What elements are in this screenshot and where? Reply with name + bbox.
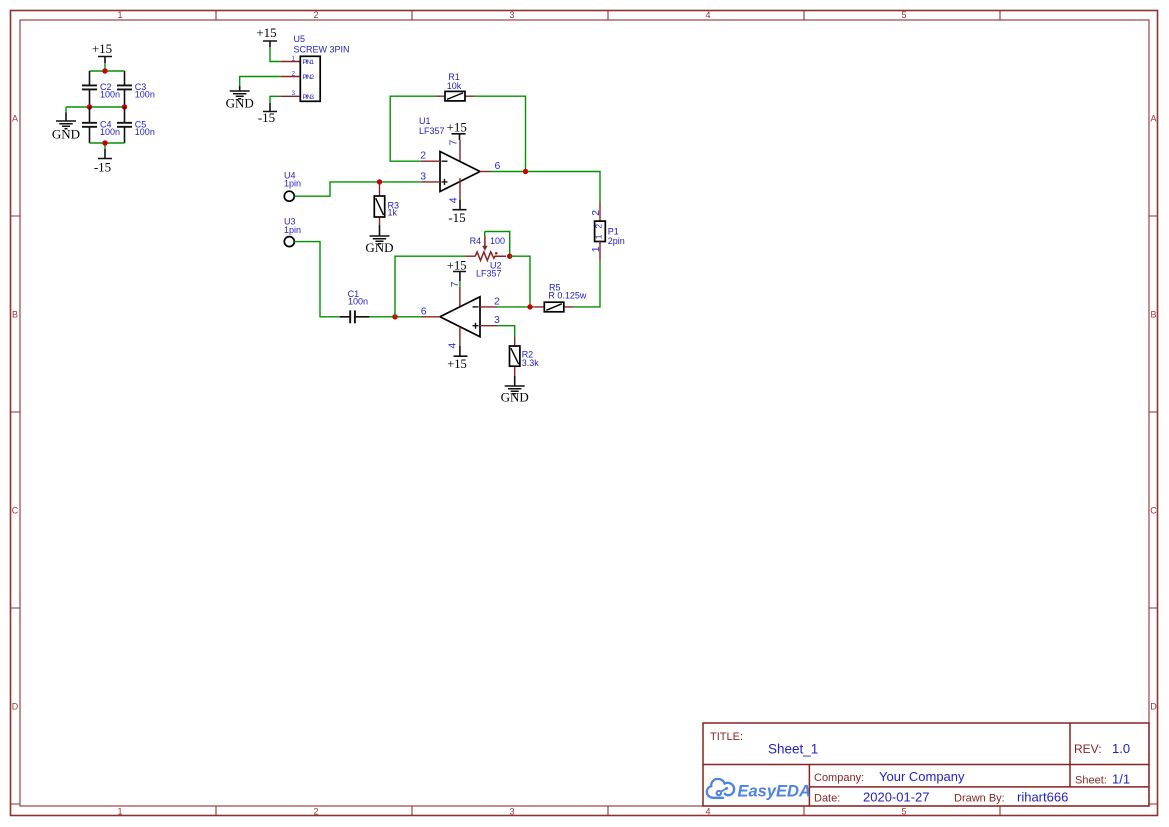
potentiometer R4: [465, 232, 506, 261]
svg-text:B: B: [12, 310, 18, 320]
svg-text:-15: -15: [258, 110, 275, 125]
svg-text:1/1: 1/1: [1112, 772, 1130, 787]
connector P1 body: [594, 221, 606, 241]
wire U5 pin3 to -15: [270, 96, 280, 103]
U1 pin 2: [420, 150, 440, 162]
capacitor C5: [117, 107, 155, 143]
svg-text:6: 6: [421, 305, 427, 317]
resistor R5: [534, 282, 587, 312]
power +15 (U2 pin7): [447, 258, 467, 281]
wire U4 to U1 pin3: [294, 182, 420, 196]
svg-text:4: 4: [705, 806, 710, 816]
power +15 (U2 pin4): [447, 346, 467, 371]
wire R5 to P1 pin1: [574, 261, 601, 307]
wire U5 pin2 to GND: [240, 77, 281, 87]
ruler bottom numbers: [117, 806, 906, 816]
svg-text:EasyEDA: EasyEDA: [738, 782, 811, 800]
wire feedback up to R4: [395, 256, 465, 317]
svg-text:100n: 100n: [135, 90, 155, 100]
U2 pin 7: [449, 281, 461, 306]
svg-text:PIN1: PIN1: [303, 59, 315, 66]
svg-text:1: 1: [594, 234, 604, 239]
svg-text:D: D: [12, 702, 19, 712]
svg-text:Sheet:: Sheet:: [1075, 775, 1107, 787]
power +15 (U1 pin7): [447, 119, 467, 140]
ground GND (cap bank): [52, 113, 80, 142]
svg-text:+15: +15: [447, 258, 467, 272]
wire top of cap bank: [90, 70, 125, 72]
wire mid cap bank: [66, 107, 125, 113]
svg-text:2: 2: [313, 10, 318, 20]
svg-text:2: 2: [494, 296, 500, 308]
junction R3 top: [377, 179, 382, 184]
svg-text:+15: +15: [447, 119, 467, 134]
resistor R3: [374, 182, 399, 225]
svg-text:100n: 100n: [100, 90, 120, 100]
svg-text:7: 7: [447, 140, 459, 146]
ground GND (U5): [226, 86, 254, 111]
power -15 (cap bank): [94, 149, 112, 175]
connector U3: [284, 237, 294, 247]
svg-text:2pin: 2pin: [608, 236, 625, 246]
svg-text:D: D: [1150, 702, 1157, 712]
svg-text:100n: 100n: [135, 127, 155, 137]
svg-text:3: 3: [509, 10, 514, 20]
svg-text:C: C: [1150, 506, 1157, 516]
svg-text:GND: GND: [52, 127, 80, 142]
svg-text:A: A: [12, 114, 18, 124]
U5 pin 2: [280, 71, 300, 77]
svg-text:Sheet_1: Sheet_1: [768, 742, 818, 757]
U1 pin 6: [480, 160, 501, 172]
U5 pin 1: [280, 56, 300, 62]
svg-text:LF357: LF357: [476, 269, 502, 279]
svg-text:6: 6: [495, 160, 501, 172]
wire U5 pin1: [270, 47, 280, 62]
svg-text:4: 4: [447, 197, 459, 203]
svg-text:Company:: Company:: [814, 772, 864, 784]
power -15 (U1 pin4): [448, 200, 466, 225]
svg-text:5: 5: [901, 806, 906, 816]
svg-text:Drawn By:: Drawn By:: [954, 793, 1005, 805]
svg-text:2: 2: [590, 210, 602, 216]
svg-text:1k: 1k: [388, 208, 398, 218]
junction C1 output node: [392, 314, 397, 319]
svg-text:U1: U1: [419, 116, 431, 126]
junction mid left: [87, 104, 92, 109]
junction mid right: [122, 104, 127, 109]
wire U1 output: [491, 172, 601, 202]
wire U2 pin3 to R2: [497, 326, 515, 337]
svg-text:P1: P1: [608, 227, 619, 237]
svg-text:C: C: [12, 506, 19, 516]
junction U1 output: [523, 169, 528, 174]
capacitor C2: [82, 71, 120, 107]
svg-text:REV:: REV:: [1074, 742, 1102, 756]
op-amp U1: [440, 152, 480, 192]
svg-text:1pin: 1pin: [284, 179, 301, 189]
U1 pin 4: [447, 178, 460, 203]
power +15 (U5): [256, 25, 277, 47]
svg-text:1: 1: [117, 806, 122, 816]
svg-text:B: B: [1150, 310, 1156, 320]
svg-text:rihart666: rihart666: [1017, 790, 1068, 805]
U1 pin 3: [420, 170, 440, 182]
capacitor C1: [340, 289, 370, 323]
svg-text:10k: 10k: [447, 81, 462, 91]
svg-text:100: 100: [490, 236, 505, 246]
connector U4: [284, 191, 294, 201]
svg-text:3: 3: [420, 170, 426, 182]
svg-text:+15: +15: [92, 41, 112, 56]
resistor R2: [510, 337, 540, 376]
wire bottom cap bank: [90, 143, 125, 149]
P1 pin 1: [590, 242, 602, 262]
svg-text:Your Company: Your Company: [879, 769, 965, 784]
svg-text:GND: GND: [501, 390, 529, 405]
U2 pin 3: [480, 314, 500, 326]
svg-text:3.3k: 3.3k: [522, 358, 540, 368]
svg-text:+15: +15: [256, 25, 276, 40]
wire C1 to U2 pin6: [370, 316, 421, 318]
svg-text:LF357: LF357: [419, 126, 445, 136]
svg-text:TITLE:: TITLE:: [710, 731, 743, 743]
U2 pin 6: [421, 305, 440, 317]
EasyEDA logo: [707, 779, 811, 800]
wire R4 to U2 pin2 node: [510, 256, 530, 307]
svg-text:-15: -15: [94, 160, 111, 175]
svg-text:1pin: 1pin: [284, 225, 301, 235]
title block outline: [703, 723, 1149, 806]
svg-text:100n: 100n: [348, 297, 368, 307]
svg-text:2: 2: [594, 224, 604, 229]
svg-text:+15: +15: [447, 357, 467, 371]
power +15 (cap bank): [92, 41, 112, 71]
svg-text:2: 2: [420, 150, 426, 162]
svg-text:-15: -15: [448, 210, 465, 225]
power -15 (U5): [258, 103, 277, 125]
svg-text:3: 3: [509, 806, 514, 816]
svg-text:PIN2: PIN2: [303, 74, 315, 81]
ground GND (R2): [501, 376, 529, 405]
junction top cap bank: [102, 68, 107, 73]
svg-text:2020-01-27: 2020-01-27: [863, 790, 930, 805]
svg-text:R4: R4: [470, 236, 482, 246]
U1 pin 7: [447, 140, 460, 165]
wire R4 wiper loop: [485, 232, 510, 257]
svg-text:1.0: 1.0: [1112, 741, 1130, 756]
svg-text:GND: GND: [226, 96, 254, 111]
svg-text:4: 4: [447, 343, 459, 349]
svg-text:1: 1: [590, 246, 602, 252]
svg-text:2: 2: [313, 806, 318, 816]
svg-text:1: 1: [117, 10, 122, 20]
svg-text:A: A: [1150, 114, 1156, 124]
wire R1 right to output node: [475, 96, 526, 171]
svg-text:R 0.125w: R 0.125w: [548, 291, 587, 301]
op-amp U2: [440, 297, 480, 337]
svg-text:5: 5: [901, 10, 906, 20]
capacitor C4: [82, 107, 120, 143]
P1 pin 2: [590, 202, 602, 222]
ground GND (R3): [365, 225, 393, 255]
resistor R1: [436, 72, 475, 101]
U2 pin 4: [447, 327, 460, 349]
svg-text:GND: GND: [365, 240, 393, 255]
svg-text:PIN3: PIN3: [303, 94, 315, 101]
connector U5 body: [300, 56, 320, 101]
svg-text:3: 3: [494, 314, 500, 326]
U2 pin 2: [480, 296, 500, 308]
ruler right letters: [1150, 114, 1157, 712]
wire U2 pin7: [459, 281, 461, 287]
svg-text:U5: U5: [294, 34, 306, 44]
svg-text:Date:: Date:: [814, 793, 840, 805]
svg-text:100n: 100n: [100, 127, 120, 137]
junction R5 left: [527, 304, 532, 309]
svg-text:7: 7: [449, 281, 461, 287]
wire U2 pin2 to R5: [497, 306, 534, 308]
junction bottom cap bank: [102, 140, 107, 145]
U5 pin 3: [280, 91, 300, 97]
capacitor C3: [117, 71, 155, 107]
svg-text:SCREW 3PIN: SCREW 3PIN: [294, 44, 350, 54]
junction R4 right: [507, 254, 512, 259]
wire R1 left to U1 pin2: [390, 96, 436, 161]
wire U3 to C1: [294, 242, 339, 317]
svg-text:4: 4: [705, 10, 710, 20]
